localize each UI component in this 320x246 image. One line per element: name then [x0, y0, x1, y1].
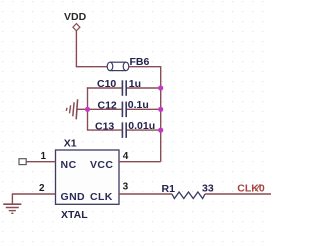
svg-text:GND: GND	[61, 191, 86, 203]
capacitor C12	[87, 99, 161, 117]
pin 3 CLK	[90, 182, 172, 204]
svg-text:CLK0: CLK0	[237, 183, 265, 195]
svg-text:C10: C10	[97, 78, 116, 90]
junction dot right bus / C10	[158, 85, 163, 90]
wire VDD to FB6	[76, 31, 107, 67]
svg-text:NC: NC	[61, 159, 77, 171]
svg-text:C13: C13	[95, 120, 114, 132]
wire right bus	[160, 66, 162, 162]
pin 4 VCC	[90, 151, 161, 171]
junction dot left bus / C12	[85, 107, 90, 112]
ground (earth) at capacitor bus	[66, 99, 87, 119]
power symbol VDD	[64, 11, 87, 31]
svg-text:XTAL: XTAL	[61, 209, 88, 221]
ground at pin 2	[3, 193, 21, 213]
junction dot right bus / C13	[158, 128, 163, 133]
oscillator X1 body	[56, 137, 120, 221]
wire R1 to edge / net CLK0	[205, 193, 271, 195]
wire FB6 to right bus	[129, 66, 161, 68]
svg-text:C12: C12	[98, 100, 117, 112]
pin 1 NC	[26, 151, 77, 171]
svg-text:1u: 1u	[129, 78, 141, 90]
net label CLK0	[237, 183, 265, 195]
no-connect square on pin 1	[19, 159, 26, 165]
svg-text:4: 4	[123, 151, 129, 162]
resistor R1	[162, 182, 214, 198]
svg-text:0.1u: 0.1u	[128, 99, 149, 111]
junction dot right bus / C12	[158, 107, 163, 112]
svg-text:0.01u: 0.01u	[128, 120, 155, 132]
capacitor C10	[87, 78, 161, 96]
capacitor C13	[87, 120, 161, 138]
svg-text:3: 3	[123, 182, 129, 193]
svg-text:1: 1	[41, 151, 47, 162]
ferrite bead FB6	[107, 56, 149, 71]
svg-text:33: 33	[202, 182, 214, 194]
svg-text:X1: X1	[64, 137, 77, 149]
svg-text:R1: R1	[162, 183, 176, 195]
wire left capacitor bus	[87, 87, 89, 130]
pin 2 GND	[12, 183, 85, 203]
svg-text:CLK: CLK	[90, 191, 113, 203]
svg-text:VDD: VDD	[64, 11, 87, 23]
svg-text:2: 2	[39, 183, 45, 194]
svg-text:VCC: VCC	[90, 159, 113, 171]
